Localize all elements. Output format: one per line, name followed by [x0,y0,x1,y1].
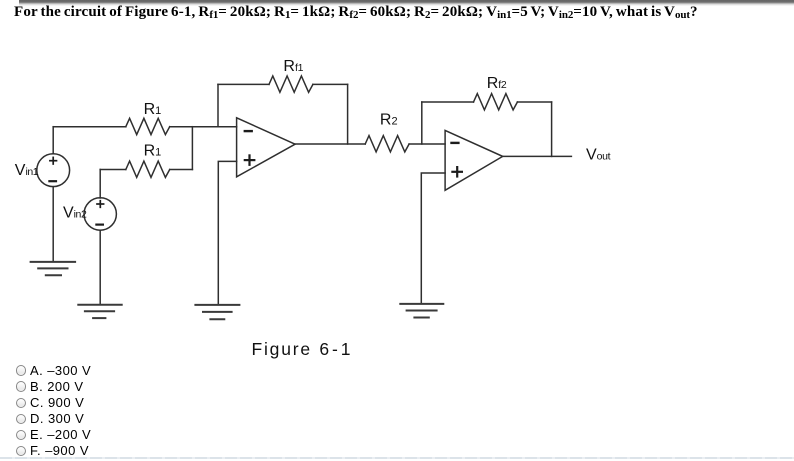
U2 inverting input marker - [452,142,459,144]
svg-text:Rf1: Rf1 [283,58,303,75]
svg-text:R1: R1 [144,101,162,118]
resistor R1 (top, series with Vin1) [126,118,170,134]
wire: Vin1 to R1 top lead [53,126,126,128]
Vin2 polarity + [97,201,104,208]
top chrome bar [19,0,794,6]
ground (below U1 non-inverting input) [195,305,239,319]
svg-text:Rf2: Rf2 [487,75,507,92]
figure caption [252,339,354,360]
wire: U2 non-inverting input to ground [421,173,445,304]
wire: Vin1 top stub (vertical) [52,127,54,154]
answer option E [14,428,16,440]
svg-text:R1: R1 [144,142,162,159]
wire: Vin2 to R1 bottom lead [100,169,126,171]
wire: Vin1 bottom to ground [52,187,54,262]
wire: R1 top to op-amp U1 inverting input [170,126,237,128]
wire: R1 bottom right lead to junction [170,169,193,171]
wire: Rf2 top left segment [422,101,474,103]
op-amp U1 triangle [237,118,296,177]
voltage source Vin1 [37,154,70,187]
wire: Vin2 top stub (vertical) [99,170,101,199]
resistor R2 [365,136,409,152]
U2 non-inverting input marker + [452,167,462,176]
answer option C [14,396,16,408]
resistor Rf2 (feedback of U2) [474,94,518,110]
wire: U1 output to R2 [295,143,365,145]
resistor R1 (bottom, series with Vin2) [126,161,170,177]
svg-text:R2: R2 [380,112,398,129]
Vin1 polarity - [49,180,56,182]
ground (below Vin1) [31,262,76,275]
wire: Rf2 left vertical from U2 inverting node [421,102,423,144]
wire: R2 to op-amp U2 inverting input [409,143,445,145]
svg-text:Vin2: Vin2 [63,205,87,222]
wire: U2 output to Vout [503,155,572,157]
wire: U1 non-inverting input to ground [218,161,236,304]
wire: Rf2 right vertical down to U2 output [551,102,553,156]
bottom separator strip [0,457,794,459]
voltage source Vin2 [84,198,116,230]
op-amp U2 triangle [445,130,503,190]
U1 non-inverting input marker + [245,155,255,164]
answer option B [14,379,16,391]
U1 inverting input marker - [245,130,252,132]
resistor Rf1 (feedback of U1) [269,76,313,92]
question title [14,4,698,21]
svg-text:Vin1: Vin1 [15,162,39,179]
wire: Rf2 top right segment [517,101,551,103]
wire: Rf1 right vertical down to U1 output [347,84,349,144]
ground (below U2 non-inverting input) [400,304,443,318]
svg-text:Vout: Vout [586,147,611,164]
wire: Rf1 top right segment [313,83,348,85]
wire: Vin2 bottom to ground [99,230,101,304]
wire: Rf1 top left segment [218,83,269,85]
Vin2 polarity - [96,224,103,226]
wire: Rf1 left vertical from inverting node [217,84,219,126]
Vin1 polarity + [50,157,57,164]
answer option F [14,444,16,456]
ground (below Vin2) [78,305,121,318]
answer option D [14,412,16,424]
node junction vertical joining lower branch [191,127,193,170]
answer option A [14,363,16,375]
